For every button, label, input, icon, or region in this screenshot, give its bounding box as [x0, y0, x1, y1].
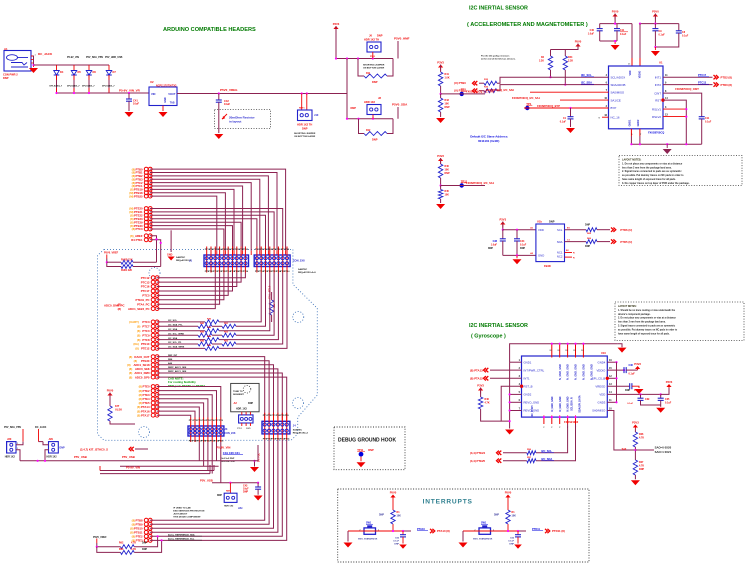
svg-text:A2: A2 — [530, 252, 534, 255]
svg-text:SA1/CE: SA1/CE — [611, 98, 621, 102]
svg-text:P5V0: P5V0 — [612, 10, 619, 14]
svg-text:3. Signal traces connected to: 3. Signal traces connected to pads are a… — [618, 325, 676, 328]
svg-text:N_GND_GND: N_GND_GND — [559, 396, 562, 411]
svg-text:ACCL_REFERENCE_SCL: ACCL_REFERENCE_SCL — [168, 537, 195, 540]
svg-text:RSLV1: RSLV1 — [652, 107, 661, 111]
svg-text:P3V3: P3V3 — [632, 421, 639, 425]
svg-text:PTD11 (8): PTD11 (8) — [552, 529, 565, 533]
svg-text:9: 9 — [665, 81, 667, 84]
svg-text:REVO_GND: REVO_GND — [524, 401, 540, 405]
svg-text:PTA4_PC: PTA4_PC — [137, 302, 149, 306]
svg-text:LAYOUT NOTES:: LAYOUT NOTES: — [618, 305, 637, 308]
svg-text:C36: C36 — [629, 364, 634, 367]
svg-text:10uF: 10uF — [224, 102, 230, 106]
svg-text:J10: J10 — [314, 113, 319, 117]
svg-text:7: 7 — [519, 407, 521, 410]
svg-text:PTE31_PC: PTE31_PC — [136, 298, 150, 302]
svg-text:I2C_SCL: I2C_SCL — [581, 73, 592, 77]
svg-text:2: 2 — [519, 367, 521, 370]
svg-text:P: P — [640, 134, 642, 136]
svg-text:SA0: SA0 — [622, 448, 627, 451]
svg-text:16: 16 — [609, 359, 612, 362]
svg-text:DNP: DNP — [445, 172, 450, 175]
svg-text:HDR 1X2: HDR 1X2 — [224, 506, 234, 508]
svg-text:PTD6 (U): PTD6 (U) — [620, 228, 632, 232]
svg-text:PTC13: PTC13 — [698, 80, 707, 84]
svg-text:P: P — [551, 427, 553, 429]
svg-text:Put the I2C pullup resistors: Put the I2C pullup resistors — [481, 55, 510, 58]
svg-text:PTC17: PTC17 — [698, 73, 707, 77]
svg-text:R46: R46 — [207, 344, 212, 347]
svg-text:I2C_SDA: I2C_SDA — [541, 457, 552, 461]
svg-text:(8) PTA13: (8) PTA13 — [470, 368, 483, 372]
svg-text:(8): (8) — [137, 413, 140, 417]
svg-text:have same length of exposed tr: have same length of exposed trace for al… — [622, 178, 676, 181]
svg-text:N_GND_GND: N_GND_GND — [567, 396, 570, 411]
svg-text:A2: A2 — [234, 401, 238, 405]
svg-text:P5V0_VREF: P5V0_VREF — [104, 252, 119, 255]
svg-text:D6: D6 — [93, 70, 97, 74]
svg-text:DC_JACK: DC_JACK — [38, 52, 53, 56]
svg-text:R11: R11 — [366, 72, 371, 75]
svg-text:INT1: INT1 — [524, 377, 531, 381]
svg-text:0.1uF: 0.1uF — [560, 121, 567, 124]
svg-text:P5V0: P5V0 — [390, 491, 397, 495]
svg-text:ULSK: ULSK — [115, 408, 122, 412]
svg-text:J1: J1 — [189, 259, 193, 263]
svg-text:SCL/SDA_R: SCL/SDA_R — [571, 397, 574, 411]
svg-text:PTD0 (8): PTD0 (8) — [721, 83, 732, 87]
svg-text:D4: D4 — [60, 70, 64, 74]
svg-text:SCL: SCL — [557, 228, 563, 232]
svg-text:R66: R66 — [587, 238, 592, 240]
svg-text:FX0S8700CQ_BYP: FX0S8700CQ_BYP — [537, 104, 560, 108]
svg-text:REQ=8X1X2+2: REQ=8X1X2+2 — [293, 432, 309, 434]
svg-text:P3V3: P3V3 — [437, 154, 444, 158]
svg-text:J4: J4 — [293, 424, 296, 428]
svg-text:DNP pads R54/50 => R57/5?: DNP pads R54/50 => R57/5? — [168, 384, 205, 388]
svg-text:DNP: DNP — [142, 542, 147, 545]
svg-text:TAB: TAB — [170, 102, 175, 105]
svg-text:R56: R56 — [527, 449, 532, 451]
svg-text:FX0S8700CQ_I2C_SA1: FX0S8700CQ_I2C_SA1 — [466, 181, 495, 185]
svg-text:CINT: CINT — [654, 91, 661, 95]
svg-text:P5V0: P5V0 — [575, 40, 582, 44]
svg-text:D5: D5 — [78, 70, 82, 74]
svg-text:P3V3: P3V3 — [477, 384, 484, 388]
svg-text:VREGD: VREGD — [595, 384, 605, 388]
svg-text:DFLS240L-7: DFLS240L-7 — [50, 85, 63, 88]
svg-text:HDR 1X2: HDR 1X2 — [364, 100, 376, 104]
svg-text:0.1uF: 0.1uF — [705, 121, 712, 124]
svg-text:DNP: DNP — [585, 224, 590, 227]
svg-text:SAMTEC: SAMTEC — [293, 428, 303, 431]
svg-text:P5V0_VREG: P5V0_VREG — [220, 88, 238, 92]
svg-text:GND2: GND2 — [637, 119, 640, 126]
svg-text:(8): (8) — [129, 375, 132, 379]
svg-text:RH01 22K: RH01 22K — [121, 269, 132, 272]
svg-text:SPI_CS_B: SPI_CS_B — [592, 377, 606, 381]
svg-text:2.2K: 2.2K — [568, 60, 573, 63]
svg-text:4: 4 — [606, 74, 608, 77]
svg-text:I2C INERTIAL SENSOR: I2C INERTIAL SENSOR — [469, 323, 528, 329]
svg-text:PT8: PT8 — [285, 249, 290, 251]
svg-text:VDD: VDD — [538, 228, 544, 232]
svg-text:( Gyroscope ): ( Gyroscope ) — [471, 334, 506, 340]
svg-text:(8) PTA12: (8) PTA12 — [470, 377, 483, 381]
svg-text:PTC3: PTC3 — [142, 320, 150, 324]
svg-text:J8: J8 — [378, 96, 381, 100]
svg-text:P: P — [543, 427, 545, 429]
svg-text:R35: R35 — [484, 79, 489, 81]
svg-text:C56: C56 — [395, 538, 400, 540]
svg-text:15: 15 — [609, 367, 612, 370]
svg-text:(8): (8) — [129, 355, 132, 359]
svg-text:PTA10 (8): PTA10 (8) — [437, 529, 450, 533]
svg-text:DFLS240L-7: DFLS240L-7 — [82, 85, 95, 88]
svg-text:R4 PTE1: R4 PTE1 — [131, 238, 143, 242]
svg-text:NC_16: NC_16 — [611, 115, 620, 119]
svg-text:GND1: GND1 — [629, 119, 632, 126]
svg-text:NCP1117ST50T3G: NCP1117ST50T3G — [156, 84, 177, 87]
svg-text:13: 13 — [609, 383, 612, 386]
svg-text:R51: R51 — [224, 323, 229, 325]
svg-text:R55: R55 — [224, 341, 229, 343]
svg-text:P5V_USB: P5V_USB — [74, 455, 87, 459]
svg-text:P3V3: P3V3 — [500, 218, 507, 222]
svg-text:U10: U10 — [601, 351, 606, 355]
svg-text:P3V3: P3V3 — [634, 362, 641, 366]
svg-text:8: 8 — [665, 90, 667, 93]
svg-text:DNP: DNP — [639, 468, 644, 471]
svg-text:DNP: DNP — [394, 544, 399, 546]
svg-text:ADC1_SE23_PC: ADC1_SE23_PC — [128, 307, 149, 311]
svg-text:PTD2 (8): PTD2 (8) — [721, 75, 732, 79]
svg-text:TUNE TO: TUNE TO — [233, 391, 243, 393]
svg-text:1.0uF: 1.0uF — [588, 33, 595, 36]
svg-text:DNP: DNP — [372, 138, 378, 142]
svg-text:INTERRUPTS: INTERRUPTS — [423, 499, 473, 506]
svg-text:0.1uF: 0.1uF — [665, 402, 672, 405]
svg-text:ARDUINO COMPATIBLE HEADERS: ARDUINO COMPATIBLE HEADERS — [163, 27, 256, 33]
svg-text:PTC12: PTC12 — [141, 276, 150, 280]
svg-text:(8): (8) — [135, 347, 138, 351]
svg-text:PTC17: PTC17 — [141, 289, 150, 293]
svg-text:2. Do not place any components: 2. Do not place any components or vias a… — [618, 317, 677, 320]
svg-text:3: 3 — [519, 375, 521, 378]
svg-text:DNP: DNP — [377, 34, 383, 38]
svg-text:GND1: GND1 — [524, 360, 532, 364]
svg-text:CON PWR 2: CON PWR 2 — [3, 73, 18, 77]
svg-text:0.1uF: 0.1uF — [620, 33, 627, 36]
svg-text:FX0S8700CQ_CINT: FX0S8700CQ_CINT — [675, 87, 699, 91]
svg-text:SEGMENT: SEGMENT — [233, 394, 244, 396]
svg-text:10K: 10K — [512, 515, 517, 518]
svg-text:DNP: DNP — [585, 245, 590, 248]
svg-text:DNP: DNP — [60, 447, 65, 450]
svg-text:C39: C39 — [645, 398, 650, 401]
svg-text:FX0S8700CQ_I2C_SA0: FX0S8700CQ_I2C_SA0 — [466, 90, 495, 94]
svg-text:R40: R40 — [207, 317, 212, 320]
svg-text:P5,8V_VIN: P5,8V_VIN — [217, 446, 231, 450]
svg-text:ADC0_DP0: ADC0_DP0 — [135, 375, 150, 379]
svg-text:PTC0: PTC0 — [142, 329, 150, 333]
svg-text:(8): (8) — [137, 338, 140, 342]
svg-text:less than 2 mm from the packag: less than 2 mm from the package land are… — [622, 166, 672, 169]
svg-text:DNP: DNP — [3, 76, 9, 80]
svg-text:SHORTING JUMPER: SHORTING JUMPER — [363, 65, 385, 67]
svg-text:ESD SERVICES PROTECTION: ESD SERVICES PROTECTION — [173, 511, 204, 513]
svg-text:SW1_STANDRD1K: SW1_STANDRD1K — [358, 537, 378, 540]
svg-text:BYP: BYP — [611, 106, 617, 110]
svg-text:INT/PWR_CTRL: INT/PWR_CTRL — [524, 368, 545, 372]
svg-text:JUST ABOUT: JUST ABOUT — [173, 513, 188, 516]
svg-text:RST_B: RST_B — [524, 384, 533, 388]
svg-text:device's component package.: device's component package. — [618, 313, 651, 316]
svg-text:1: 1 — [519, 359, 521, 362]
svg-text:THIS DIODE COMPONENT: THIS DIODE COMPONENT — [173, 517, 201, 519]
svg-text:5: 5 — [519, 391, 521, 394]
svg-text:DNP: DNP — [217, 494, 222, 497]
svg-text:R42: R42 — [207, 326, 212, 329]
svg-text:KIT: KIT — [115, 404, 120, 408]
svg-text:U1: U1 — [659, 61, 663, 65]
svg-text:P5V0_HMF: P5V0_HMF — [394, 37, 410, 41]
svg-text:R62: R62 — [119, 542, 124, 545]
svg-text:REQ=8X1X2+2+8: REQ=8X1X2+2+8 — [298, 272, 316, 274]
svg-text:FB4D: FB4D — [544, 264, 551, 268]
svg-text:(8): (8) — [132, 227, 135, 231]
svg-text:( ACCELEROMETER AND MAGNETOMET: ( ACCELEROMETER AND MAGNETOMETER ) — [467, 22, 588, 28]
svg-text:25: 25 — [628, 64, 631, 66]
svg-text:PTC5: PTC5 — [142, 294, 150, 298]
svg-text:4.7K: 4.7K — [485, 402, 490, 405]
svg-text:5: 5 — [631, 134, 633, 136]
svg-text:P3V3: P3V3 — [333, 22, 340, 26]
svg-text:B2: B2 — [566, 250, 569, 252]
svg-text:INT2: INT2 — [655, 83, 662, 87]
svg-text:DNP: DNP — [494, 514, 499, 517]
svg-text:(8A): (8A) — [133, 342, 139, 346]
svg-text:4.7K: 4.7K — [639, 437, 644, 440]
svg-text:P5V_HDR_USB: P5V_HDR_USB — [105, 56, 123, 59]
svg-text:14: 14 — [609, 391, 612, 394]
svg-text:SCL/ADOX: SCL/ADOX — [611, 75, 626, 79]
svg-text:DNP: DNP — [243, 491, 248, 494]
svg-text:0.1uF: 0.1uF — [629, 373, 636, 376]
svg-text:ACCL_REFERENCE_SDA: ACCL_REFERENCE_SDA — [168, 533, 195, 536]
svg-text:DNP: DNP — [248, 402, 253, 405]
svg-text:PTB25: PTB25 — [134, 194, 143, 198]
svg-text:6: 6 — [606, 81, 608, 84]
svg-text:A1: A1 — [4, 47, 8, 51]
svg-text:2. Signal traces connected to: 2. Signal traces connected to pads are a… — [622, 170, 682, 173]
svg-text:P3V3: P3V3 — [666, 380, 673, 384]
svg-text:N: N — [599, 117, 601, 119]
svg-text:I2C_SDA: I2C_SDA — [581, 80, 592, 84]
svg-text:LAYOUT NOTES:: LAYOUT NOTES: — [622, 159, 642, 162]
svg-text:DNP: DNP — [351, 106, 357, 110]
svg-text:0.1uF: 0.1uF — [659, 34, 666, 37]
svg-text:PTA17: PTA17 — [141, 413, 150, 417]
svg-text:(3,4,7) KIT_I2THC0_S: (3,4,7) KIT_I2THC0_S — [80, 448, 108, 452]
svg-text:in layout: in layout — [229, 120, 241, 124]
svg-text:N_GND_GND: N_GND_GND — [583, 364, 586, 380]
svg-text:FX0S8700CQ: FX0S8700CQ — [648, 131, 664, 135]
svg-text:VDDIO: VDDIO — [596, 368, 606, 372]
svg-text:P: P — [559, 427, 561, 429]
svg-text:3: 3 — [665, 106, 667, 109]
svg-text:NET: NET — [226, 491, 231, 493]
svg-text:P5V_USB: P5V_USB — [200, 479, 213, 483]
svg-text:P5V0_SDA: P5V0_SDA — [392, 103, 408, 107]
svg-text:P5V0: P5V0 — [107, 389, 114, 393]
svg-text:(8): (8) — [137, 329, 140, 333]
svg-text:PTC3: PTC3 — [135, 227, 143, 231]
svg-text:R36: R36 — [484, 87, 489, 89]
svg-text:I2C INERTIAL SENSOR: I2C INERTIAL SENSOR — [469, 6, 528, 12]
svg-text:GND: GND — [164, 97, 167, 103]
svg-text:RSLV2: RSLV2 — [652, 115, 661, 119]
svg-text:P5-9V_VIN: P5-9V_VIN — [67, 56, 79, 59]
svg-text:HDR 1X2: HDR 1X2 — [5, 456, 16, 459]
svg-text:3x3 5x3 DNP: 3x3 5x3 DNP — [221, 458, 235, 460]
svg-text:R12: R12 — [366, 129, 371, 132]
svg-text:3. No copper traces on top lay: 3. No copper traces on top layer of PCB … — [622, 182, 690, 185]
svg-text:0.1uF: 0.1uF — [393, 541, 399, 543]
svg-text:C19 C20 C21: C19 C20 C21 — [223, 451, 240, 455]
svg-text:VIN: VIN — [151, 92, 155, 96]
svg-text:HDR_1X3: HDR_1X3 — [236, 408, 247, 411]
svg-text:J29: J29 — [49, 437, 54, 441]
svg-text:GND: GND — [167, 254, 173, 257]
svg-text:as possible. Put dummy traces: as possible. Put dummy traces on NC pads… — [622, 174, 684, 177]
svg-text:RH0B 22K: RH0B 22K — [121, 258, 133, 261]
svg-text:DNP: DNP — [488, 247, 493, 250]
svg-text:GND4: GND4 — [598, 360, 606, 364]
svg-text:12: 12 — [609, 375, 612, 378]
svg-text:J3: J3 — [224, 427, 227, 431]
svg-text:(M): (M) — [129, 194, 133, 198]
svg-text:VDDIO: VDDIO — [639, 71, 642, 79]
svg-text:DNP: DNP — [372, 80, 378, 84]
svg-text:SAMTEC: SAMTEC — [176, 256, 186, 259]
svg-text:CON_2X8: CON_2X8 — [293, 259, 305, 263]
svg-text:U1b: U1b — [537, 220, 542, 224]
svg-text:NET1: NET1 — [299, 108, 305, 110]
svg-text:R65: R65 — [587, 233, 592, 235]
svg-text:PT10: PT10 — [243, 249, 249, 251]
svg-text:I2C_SCL: I2C_SCL — [541, 449, 552, 453]
svg-text:HDR 1X2 TH: HDR 1X2 TH — [364, 38, 379, 42]
svg-text:2: 2 — [606, 105, 608, 108]
svg-text:10uF: 10uF — [133, 102, 139, 106]
svg-text:SAO=1 0X21: SAO=1 0X21 — [655, 450, 672, 454]
svg-text:(U) PTB0: (U) PTB0 — [454, 81, 466, 85]
svg-text:(3,4) PTE25: (3,4) PTE25 — [470, 459, 486, 463]
svg-text:C1: C1 — [567, 239, 571, 241]
svg-text:P5V_SDA_PBV: P5V_SDA_PBV — [4, 426, 22, 429]
svg-text:10K: 10K — [397, 515, 402, 518]
svg-text:less than 2 mm from the packag: less than 2 mm from the package land are… — [618, 321, 666, 324]
svg-text:DNP: DNP — [302, 127, 308, 131]
svg-text:P5V0: P5V0 — [370, 56, 376, 58]
svg-text:ON BOTTOM LAYER: ON BOTTOM LAYER — [294, 135, 316, 138]
svg-text:INT1: INT1 — [655, 75, 662, 79]
svg-text:D7: D7 — [113, 70, 117, 74]
svg-text:P5V0_VREF: P5V0_VREF — [93, 536, 107, 539]
svg-text:11: 11 — [609, 399, 612, 402]
svg-text:R57: R57 — [527, 457, 532, 459]
svg-text:N_GND_GND: N_GND_GND — [567, 364, 570, 380]
svg-text:10K: 10K — [445, 194, 450, 197]
svg-text:SWD: SWD — [246, 428, 251, 430]
svg-text:DC_JACK: DC_JACK — [35, 426, 47, 429]
svg-text:PTC13: PTC13 — [141, 280, 150, 284]
svg-text:SDA/SPI_DATA: SDA/SPI_DATA — [579, 395, 582, 412]
svg-text:P5-9V_VIN: P5-9V_VIN — [126, 465, 140, 469]
svg-text:PTD5 (U): PTD5 (U) — [620, 240, 632, 244]
svg-text:N_GND_GND: N_GND_GND — [575, 364, 578, 380]
svg-text:DFLS240L-7: DFLS240L-7 — [102, 85, 115, 88]
svg-text:P3V3: P3V3 — [437, 61, 444, 65]
svg-text:R44: R44 — [207, 335, 212, 338]
svg-text:P5-9V_VIN_VR: P5-9V_VIN_VR — [119, 89, 141, 93]
svg-text:PTE10: PTE10 — [141, 342, 150, 346]
svg-text:N_GND_GND: N_GND_GND — [551, 396, 554, 411]
svg-text:SA0/MISO: SA0/MISO — [611, 90, 625, 94]
svg-text:11: 11 — [665, 74, 668, 77]
svg-text:PT14: PT14 — [284, 437, 290, 440]
svg-text:N_GND_GND: N_GND_GND — [559, 364, 562, 380]
svg-text:ADC0_DM0_PC: ADC0_DM0_PC — [104, 304, 125, 308]
svg-text:PTC16: PTC16 — [141, 285, 150, 289]
svg-text:PTD11: PTD11 — [532, 527, 540, 531]
svg-text:6: 6 — [519, 399, 521, 402]
svg-text:SA0/MISO: SA0/MISO — [592, 409, 606, 413]
svg-text:FX0S8700CQ_I2C_SA1: FX0S8700CQ_I2C_SA1 — [512, 96, 541, 100]
svg-text:DNP: DNP — [520, 247, 525, 250]
svg-text:10: 10 — [609, 407, 612, 410]
svg-text:PT6: PT6 — [285, 415, 290, 417]
svg-text:0011101 (0x1D): 0011101 (0x1D) — [478, 139, 499, 143]
svg-text:as possible. Put dummy traces: as possible. Put dummy traces on NC pads… — [618, 328, 678, 331]
svg-text:at the end of the I2C bus devi: at the end of the I2C bus devices. — [481, 58, 516, 61]
svg-text:DNP: DNP — [549, 220, 555, 224]
svg-text:CON_2X8: CON_2X8 — [224, 432, 236, 435]
svg-text:DNP: DNP — [445, 106, 450, 109]
svg-text:PTC9: PTC9 — [142, 333, 150, 337]
svg-text:1.0K: 1.0K — [445, 77, 450, 80]
svg-text:2.2K: 2.2K — [539, 60, 544, 63]
svg-text:1. Should be no trace routing: 1. Should be no trace routing or vias un… — [618, 309, 676, 312]
svg-text:R: R — [573, 257, 575, 259]
svg-text:RST: RST — [655, 98, 661, 102]
svg-text:PTA10: PTA10 — [417, 527, 425, 531]
svg-text:SW1_STANDRD1K: SW1_STANDRD1K — [473, 537, 493, 540]
svg-text:HDR 1X2 TH: HDR 1X2 TH — [297, 123, 312, 127]
svg-text:PTC7: PTC7 — [142, 325, 150, 329]
svg-text:ON BOTTOM LAYER: ON BOTTOM LAYER — [363, 67, 385, 70]
svg-text:P5V0: P5V0 — [652, 10, 659, 14]
svg-text:GND2: GND2 — [524, 393, 532, 397]
svg-text:NC2: NC2 — [557, 255, 563, 259]
svg-text:1. Do not place any components: 1. Do not place any components or vias a… — [622, 162, 683, 165]
svg-text:P5V_USB: P5V_USB — [122, 455, 135, 459]
svg-text:PTD1: PTD1 — [237, 428, 243, 430]
svg-text:(UART): (UART) — [129, 320, 139, 324]
svg-text:0.1uF: 0.1uF — [508, 541, 514, 543]
